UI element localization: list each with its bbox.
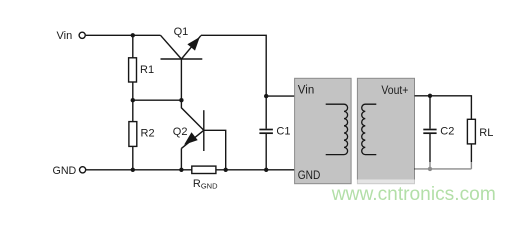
watermark band — [415, 162, 517, 206]
node Vin terminal — [79, 32, 85, 38]
wire Q1 emitter to module Vin — [201, 35, 266, 96]
junction C2 bottom — [428, 167, 432, 171]
module primary box — [295, 78, 352, 183]
svg-text:GND: GND — [298, 170, 321, 182]
wire Vout return rail — [415, 168, 472, 170]
svg-text:RGND: RGND — [193, 178, 218, 191]
junction Q2 base bottom — [224, 168, 228, 172]
node GND terminal — [80, 167, 86, 173]
junction C1 top — [264, 94, 268, 98]
svg-text:RL: RL — [479, 127, 493, 139]
svg-text:Q2: Q2 — [173, 126, 188, 138]
svg-text:GND: GND — [53, 165, 77, 177]
svg-text:C1: C1 — [276, 125, 290, 137]
wire R1 bottom lead — [132, 82, 134, 100]
wire Vin rail to Q1 collector — [86, 34, 161, 36]
wire RL bottom lead — [470, 144, 472, 169]
module secondary box — [357, 78, 414, 183]
junction C1 bottom — [264, 168, 268, 172]
wire base node cross link — [133, 99, 182, 101]
junction R2 bottom — [131, 168, 135, 172]
svg-text:R1: R1 — [140, 64, 154, 76]
svg-text:Q1: Q1 — [174, 26, 189, 38]
svg-text:R2: R2 — [141, 127, 155, 139]
svg-text:www.cntronics.com: www.cntronics.com — [331, 184, 496, 205]
junction C2 top — [428, 94, 432, 98]
wire R1 top lead — [132, 35, 134, 58]
svg-text:C2: C2 — [440, 125, 454, 137]
inductor primary winding — [326, 104, 348, 154]
wire GND rail left — [86, 169, 192, 171]
transistor Q2 — [181, 100, 225, 170]
junction Q2 emitter bottom — [179, 168, 183, 172]
wire R2 bottom lead — [132, 146, 134, 169]
wire Vout+ rail — [415, 96, 472, 120]
wire GND rail right — [216, 169, 295, 171]
junction Q1 base / Q2 collector node — [179, 98, 183, 102]
capacitor C1 — [259, 96, 273, 170]
wire module Vin pin lead — [266, 95, 294, 97]
svg-text:Vout+: Vout+ — [381, 85, 408, 97]
resistor RL — [467, 119, 475, 144]
capacitor C2 — [423, 96, 436, 169]
resistor R1 — [129, 58, 137, 82]
inductor secondary winding — [362, 104, 377, 154]
svg-text:Vin: Vin — [298, 84, 314, 96]
junction R1 top — [131, 33, 135, 37]
resistor R2 — [129, 122, 137, 147]
resistor RGND — [192, 166, 216, 173]
junction R1 bottom node — [131, 98, 135, 102]
transistor Q1 — [161, 35, 203, 100]
wire R2 top lead — [132, 100, 134, 121]
svg-text:Vin: Vin — [57, 30, 73, 42]
